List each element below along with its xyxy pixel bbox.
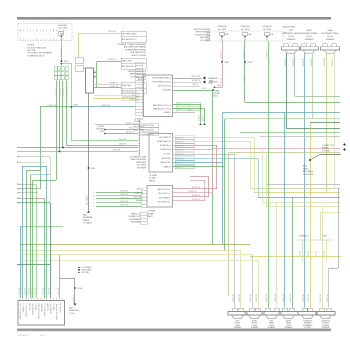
svg-text:SYSTEM: SYSTEM [304, 327, 311, 329]
svg-text:C3 GRAY: C3 GRAY [147, 210, 156, 213]
svg-text:FRONT: FRONT [252, 323, 258, 325]
svg-text:DB/WT 20: DB/WT 20 [303, 58, 305, 66]
svg-text:LG/DG 18: LG/DG 18 [107, 59, 116, 61]
svg-text:RD 18: RD 18 [220, 78, 222, 83]
svg-text:INSTRUMENT PANEL: INSTRUMENT PANEL [300, 32, 318, 35]
svg-text:RD/WT 20: RD/WT 20 [126, 123, 134, 125]
svg-text:YL/DG 18: YL/DG 18 [108, 31, 116, 33]
svg-text:RAD 12V OUT: RAD 12V OUT [158, 188, 171, 191]
svg-text:RD/WT 18: RD/WT 18 [220, 50, 222, 58]
svg-text:WT/PK 20: WT/PK 20 [188, 191, 196, 193]
svg-text:RD/GY 20: RD/GY 20 [192, 187, 200, 189]
svg-text:ANT PWR: ANT PWR [162, 157, 171, 160]
svg-text:GROUND G301: GROUND G301 [142, 129, 154, 131]
svg-text:6: 6 [84, 68, 85, 70]
svg-text:CONNECTOR: CONNECTOR [322, 145, 334, 147]
svg-text:S304: S304 [78, 288, 82, 290]
svg-text:RD/WT 20: RD/WT 20 [176, 154, 184, 156]
svg-text:WITH PREMIUM: WITH PREMIUM [196, 32, 211, 34]
svg-text:INSTRUMENT PANEL: INSTRUMENT PANEL [321, 32, 339, 35]
svg-text:INSTRUMENT PANEL: INSTRUMENT PANEL [282, 32, 300, 35]
svg-text:AUDIO SYSTEM: AUDIO SYSTEM [132, 54, 147, 57]
svg-text:C1: C1 [92, 195, 94, 197]
svg-text:S309: S309 [225, 62, 229, 64]
svg-text:DB/WT 20: DB/WT 20 [311, 58, 313, 66]
svg-text:22 WAY: 22 WAY [134, 120, 141, 123]
svg-text:I-BUS CIRCUIT: I-BUS CIRCUIT [158, 86, 172, 88]
svg-text:AND AMPLIFIER WIRING: AND AMPLIFIER WIRING [124, 46, 146, 49]
svg-text:DG/OR 20: DG/OR 20 [275, 294, 277, 302]
svg-text:COMPLETE: COMPLETE [303, 320, 312, 322]
svg-text:LG/DG 20: LG/DG 20 [48, 288, 50, 295]
svg-text:DIST: DIST [209, 83, 213, 85]
svg-text:HIGH SPEED BUS (+): HIGH SPEED BUS (+) [152, 78, 171, 80]
svg-text:DG/OR 20: DG/OR 20 [250, 294, 252, 302]
svg-text:ON REAR GLASS: ON REAR GLASS [131, 75, 147, 78]
svg-text:SPEAKER: SPEAKER [326, 38, 335, 41]
svg-text:WT/BK 18: WT/BK 18 [109, 82, 118, 84]
svg-text:RD/BK 20: RD/BK 20 [192, 195, 200, 197]
svg-text:COMPLETE: COMPLETE [321, 320, 330, 322]
svg-text:SPEAKER: SPEAKER [287, 38, 296, 41]
svg-text:SPKR OUT LF (+) RD: SPKR OUT LF (+) RD [20, 303, 22, 319]
svg-text:SPKR LF (-): SPKR LF (-) [23, 303, 25, 312]
svg-text:LEFT: LEFT [270, 320, 274, 322]
svg-text:FOR BASE: FOR BASE [200, 39, 210, 42]
svg-text:RD/WT 18: RD/WT 18 [61, 49, 63, 57]
svg-text:GY 20: GY 20 [316, 251, 318, 256]
svg-text:DG/OR 20: DG/OR 20 [266, 294, 268, 302]
svg-text:LEFT ANT CABLE: LEFT ANT CABLE [122, 33, 138, 36]
svg-text:ILLUM 20: ILLUM 20 [48, 303, 50, 310]
svg-text:FUSE M7 TIPM: FUSE M7 TIPM [142, 125, 154, 127]
svg-text:LG/RD 18: LG/RD 18 [112, 150, 120, 152]
svg-text:RD/WT 20: RD/WT 20 [176, 137, 184, 139]
svg-text:SPEAKER TO RADIO RECEIVER: SPEAKER TO RADIO RECEIVER [117, 43, 146, 46]
svg-text:No. TIPM: No. TIPM [59, 28, 68, 30]
svg-text:ANTENNA: ANTENNA [131, 221, 141, 224]
svg-text:TO RADIO: TO RADIO [83, 222, 93, 225]
svg-text:LG/DG 20: LG/DG 20 [42, 288, 44, 295]
svg-text:REAR: REAR [328, 29, 334, 32]
svg-text:(6 SPKR): (6 SPKR) [322, 325, 329, 327]
svg-text:LG/DG 20: LG/DG 20 [59, 88, 61, 96]
svg-text:HIGH SPEED BUS (-): HIGH SPEED BUS (-) [153, 82, 172, 84]
svg-text:C1 BLACK: C1 BLACK [134, 118, 144, 121]
svg-text:CABLE: CABLE [83, 219, 90, 222]
svg-text:GY 20: GY 20 [308, 251, 310, 256]
svg-text:RD 20: RD 20 [188, 110, 193, 112]
svg-text:RD/WT 20: RD/WT 20 [176, 145, 184, 147]
svg-text:ANTENNA: ANTENNA [83, 216, 93, 219]
svg-text:LG/DG 20: LG/DG 20 [120, 204, 128, 206]
svg-text:LG/DG 20: LG/DG 20 [31, 288, 33, 295]
svg-text:M11 15A: M11 15A [28, 49, 37, 52]
svg-text:GROUND G301: GROUND G301 [142, 134, 154, 136]
svg-text:WT/OR 18: WT/OR 18 [192, 76, 201, 78]
svg-text:MIC RIGHT (-): MIC RIGHT (-) [158, 202, 171, 204]
svg-text:LG 18: LG 18 [201, 88, 206, 90]
svg-text:LG/DG 20: LG/DG 20 [63, 88, 65, 96]
svg-text:No. TIPM: No. TIPM [218, 29, 226, 31]
svg-text:ANT MODULE C3: ANT MODULE C3 [122, 90, 137, 93]
svg-text:AUDIO: AUDIO [40, 334, 47, 337]
svg-text:POWER MODULE: POWER MODULE [28, 55, 45, 57]
svg-text:RD/WT 20: RD/WT 20 [176, 141, 184, 143]
svg-text:RD/WT 20: RD/WT 20 [176, 149, 184, 151]
svg-text:LG/DG 20: LG/DG 20 [120, 197, 128, 199]
svg-text:DB/WT 20: DB/WT 20 [324, 58, 326, 66]
svg-text:LG 18: LG 18 [243, 78, 245, 83]
svg-text:FUSED B(+): FUSED B(+) [69, 310, 80, 312]
svg-text:DG/OR 20: DG/OR 20 [239, 294, 241, 302]
svg-text:DG/OR 20: DG/OR 20 [290, 294, 292, 302]
svg-text:C1: C1 [92, 206, 94, 208]
svg-text:DG/OR 20: DG/OR 20 [303, 294, 305, 302]
svg-text:DB/LB 20: DB/LB 20 [102, 105, 110, 107]
svg-text:YL/DG 20: YL/DG 20 [118, 139, 126, 141]
svg-text:SPKR OUT RF (+): SPKR OUT RF (+) [26, 303, 28, 317]
svg-text:ANT MODULE C2: ANT MODULE C2 [122, 65, 137, 68]
svg-text:No. TIPM: No. TIPM [241, 29, 249, 31]
svg-text:RIGHT: RIGHT [252, 320, 257, 322]
svg-text:LG/DG 20: LG/DG 20 [58, 288, 60, 295]
svg-text:CAN B BUS: CAN B BUS [208, 77, 218, 80]
svg-text:S303: S303 [91, 168, 95, 170]
svg-text:ANT CABLE: ANT CABLE [303, 170, 314, 173]
svg-text:SHIELD: SHIELD [164, 112, 171, 114]
svg-text:RD/WT 20: RD/WT 20 [176, 158, 184, 160]
svg-text:F202: F202 [218, 85, 222, 87]
svg-text:10 WAY: 10 WAY [147, 212, 154, 215]
svg-text:C1: C1 [92, 192, 94, 194]
svg-text:No. TIPM: No. TIPM [263, 29, 271, 31]
svg-text:LEFT ANT IN: LEFT ANT IN [159, 136, 171, 139]
svg-text:RIGHT ANT: RIGHT ANT [122, 84, 132, 87]
svg-text:DG/RD: DG/RD [199, 115, 201, 121]
svg-text:S310: S310 [248, 62, 252, 64]
svg-text:RADIO RECEIVER: RADIO RECEIVER [131, 158, 147, 161]
svg-text:LG/RD 20: LG/RD 20 [48, 105, 56, 107]
svg-text:DOOR: DOOR [327, 36, 333, 38]
svg-text:RIGHT: RIGHT [286, 320, 291, 322]
svg-text:DG/OR 20: DG/OR 20 [233, 294, 235, 302]
svg-text:SPKR RR (+) WT/RD: SPKR RR (+) WT/RD [38, 303, 40, 319]
svg-text:LG/DG 20: LG/DG 20 [28, 288, 30, 295]
svg-text:DG/OR 18: DG/OR 18 [243, 50, 245, 58]
svg-text:A1A RADIO: A1A RADIO [299, 235, 309, 238]
svg-text:PREMIUM: PREMIUM [322, 327, 330, 329]
svg-text:GND 20 BK: GND 20 BK [41, 303, 43, 312]
svg-text:FUSED IGN: FUSED IGN [160, 149, 171, 151]
svg-text:IN TOTALLY INTEGRATED: IN TOTALLY INTEGRATED [28, 52, 53, 55]
svg-text:3: 3 [84, 60, 85, 62]
svg-text:DOOR: DOOR [306, 36, 312, 38]
svg-text:RADIO: RADIO [149, 179, 156, 182]
svg-text:RADIO C3: RADIO C3 [131, 213, 140, 216]
svg-text:LG/DG 20: LG/DG 20 [66, 88, 68, 96]
svg-text:SEE 8W-47: SEE 8W-47 [200, 37, 210, 39]
svg-text:22 WAY: 22 WAY [149, 177, 156, 180]
svg-text:GROUND: GROUND [163, 90, 172, 92]
svg-text:AMPLIFIER: AMPLIFIER [137, 161, 147, 164]
svg-text:8W-10: 8W-10 [213, 96, 218, 98]
svg-text:LG/DG 20: LG/DG 20 [120, 201, 128, 203]
svg-text:ANT MODULE C1: ANT MODULE C1 [122, 38, 137, 41]
svg-text:RIGHT: RIGHT [306, 30, 312, 32]
svg-text:DG/OR 20: DG/OR 20 [327, 294, 329, 302]
svg-text:NO AMPLIFIER SHOWN: NO AMPLIFIER SHOWN [125, 48, 147, 51]
svg-text:LG/DG 20: LG/DG 20 [120, 190, 128, 192]
svg-text:IN WINDOW: IN WINDOW [303, 174, 313, 176]
svg-text:C2 GREEN 22 WAY: C2 GREEN 22 WAY [130, 156, 147, 159]
svg-text:RADIO: RADIO [147, 215, 154, 218]
svg-text:ANT CABLE: ANT CABLE [86, 194, 89, 205]
svg-text:WITH AMP: WITH AMP [137, 166, 147, 169]
svg-text:GY 20: GY 20 [324, 251, 326, 256]
svg-text:FUSED B(+): FUSED B(+) [160, 145, 171, 147]
svg-text:LG/DG 20: LG/DG 20 [24, 288, 26, 295]
svg-text:SDARS ANT IN: SDARS ANT IN [157, 140, 171, 143]
svg-text:BK/YL 20: BK/YL 20 [126, 132, 134, 134]
svg-text:REPAIR: REPAIR [322, 147, 329, 150]
svg-text:DB/WT 20: DB/WT 20 [285, 58, 287, 66]
svg-text:F905: F905 [64, 61, 68, 63]
svg-text:IGN RUN 20: IGN RUN 20 [60, 303, 62, 312]
svg-text:C1: C1 [92, 202, 94, 204]
svg-text:RADIO ANT: RADIO ANT [122, 60, 133, 63]
svg-text:BK 20: BK 20 [129, 128, 134, 130]
svg-text:RR (-) 20: RR (-) 20 [29, 303, 31, 310]
svg-text:RD/WT 18: RD/WT 18 [73, 295, 75, 303]
svg-text:BK/YL: BK/YL [193, 84, 198, 86]
svg-text:LG/DG 18: LG/DG 18 [109, 86, 118, 88]
svg-text:DG/OR 20: DG/OR 20 [283, 294, 285, 302]
svg-text:RADIO: RADIO [303, 167, 309, 170]
svg-text:AMP AUDIO OUT (+): AMP AUDIO OUT (+) [153, 104, 171, 107]
svg-text:RD/OR 20: RD/OR 20 [192, 199, 200, 201]
svg-text:AUDIO INT: AUDIO INT [161, 161, 171, 164]
svg-text:LG/DG 20: LG/DG 20 [44, 288, 46, 295]
svg-text:SPKR OUT LR (-): SPKR OUT LR (-) [45, 303, 47, 316]
svg-text:MIC LEFT (+): MIC LEFT (+) [159, 193, 171, 195]
svg-text:PG 8W-47-2: PG 8W-47-2 [18, 335, 30, 337]
svg-text:LG/DG 20: LG/DG 20 [120, 194, 128, 196]
svg-text:GPS/SDARS: GPS/SDARS [129, 218, 141, 221]
svg-text:SPKR OUT RR: SPKR OUT RR [32, 303, 34, 315]
svg-text:RD/WT 20: RD/WT 20 [176, 167, 184, 169]
svg-text:CONNECTOR: CONNECTOR [128, 216, 141, 218]
svg-text:YL 20: YL 20 [132, 94, 137, 96]
svg-text:LEFT: LEFT [236, 320, 240, 322]
svg-text:DG/OR 20: DG/OR 20 [308, 294, 310, 302]
svg-text:RD/WT 20: RD/WT 20 [176, 162, 184, 164]
svg-text:LG/DG 20: LG/DG 20 [18, 288, 20, 295]
svg-text:C1: C1 [92, 199, 94, 201]
svg-text:DG/OR 20: DG/OR 20 [320, 294, 322, 302]
svg-text:SEE PAGE 8W-47: SEE PAGE 8W-47 [131, 51, 146, 54]
svg-text:FUSES: FUSES [28, 45, 35, 47]
svg-text:SYSTEM: SYSTEM [322, 323, 329, 325]
svg-text:NOT USED: NOT USED [137, 165, 147, 167]
svg-text:MIC SHIELD: MIC SHIELD [159, 197, 170, 199]
svg-text:CD RPC: CD RPC [163, 154, 171, 156]
svg-text:DG/OR: DG/OR [203, 115, 205, 121]
svg-text:SYSTEM: SYSTEM [322, 150, 330, 152]
svg-text:DB/WT 20: DB/WT 20 [332, 58, 334, 66]
svg-text:LG/DG 20: LG/DG 20 [20, 288, 22, 295]
svg-text:DB/WT 20: DB/WT 20 [293, 58, 295, 66]
svg-text:SPKR OUT RF WT/BK: SPKR OUT RF WT/BK [57, 303, 59, 320]
svg-text:SPKR LR WT: SPKR LR WT [51, 303, 53, 313]
svg-text:LG/DB 18: LG/DB 18 [118, 144, 126, 146]
svg-text:AMP AUDIO OUT (-): AMP AUDIO OUT (-) [154, 107, 172, 110]
svg-text:GY 20: GY 20 [300, 251, 302, 256]
svg-text:SPEAKER: SPEAKER [305, 38, 314, 41]
svg-text:M7 (IOD FUSE) 20A: M7 (IOD FUSE) 20A [28, 46, 47, 49]
svg-text:TO JB: TO JB [69, 313, 75, 315]
svg-text:C340: C340 [323, 236, 327, 238]
svg-text:DOOR: DOOR [288, 36, 294, 38]
svg-text:S302: S302 [74, 105, 78, 107]
svg-text:LG/DG 20: LG/DG 20 [56, 88, 58, 96]
svg-text:A ADDITIONAL: A ADDITIONAL [283, 25, 295, 28]
svg-text:SOUND SYSTEM: SOUND SYSTEM [195, 34, 211, 36]
svg-text:FRONT: FRONT [235, 323, 241, 325]
svg-text:CIRCUITS SHOWN: CIRCUITS SHOWN [193, 29, 210, 31]
svg-text:GAIN IN: GAIN IN [163, 166, 171, 169]
svg-text:G301: G301 [100, 131, 104, 133]
svg-text:C2 GRAY: C2 GRAY [149, 174, 158, 177]
svg-text:WT/BR 18: WT/BR 18 [192, 80, 200, 82]
svg-text:LG/DG 20: LG/DG 20 [34, 288, 36, 295]
svg-text:DG/OR 20: DG/OR 20 [256, 294, 258, 302]
